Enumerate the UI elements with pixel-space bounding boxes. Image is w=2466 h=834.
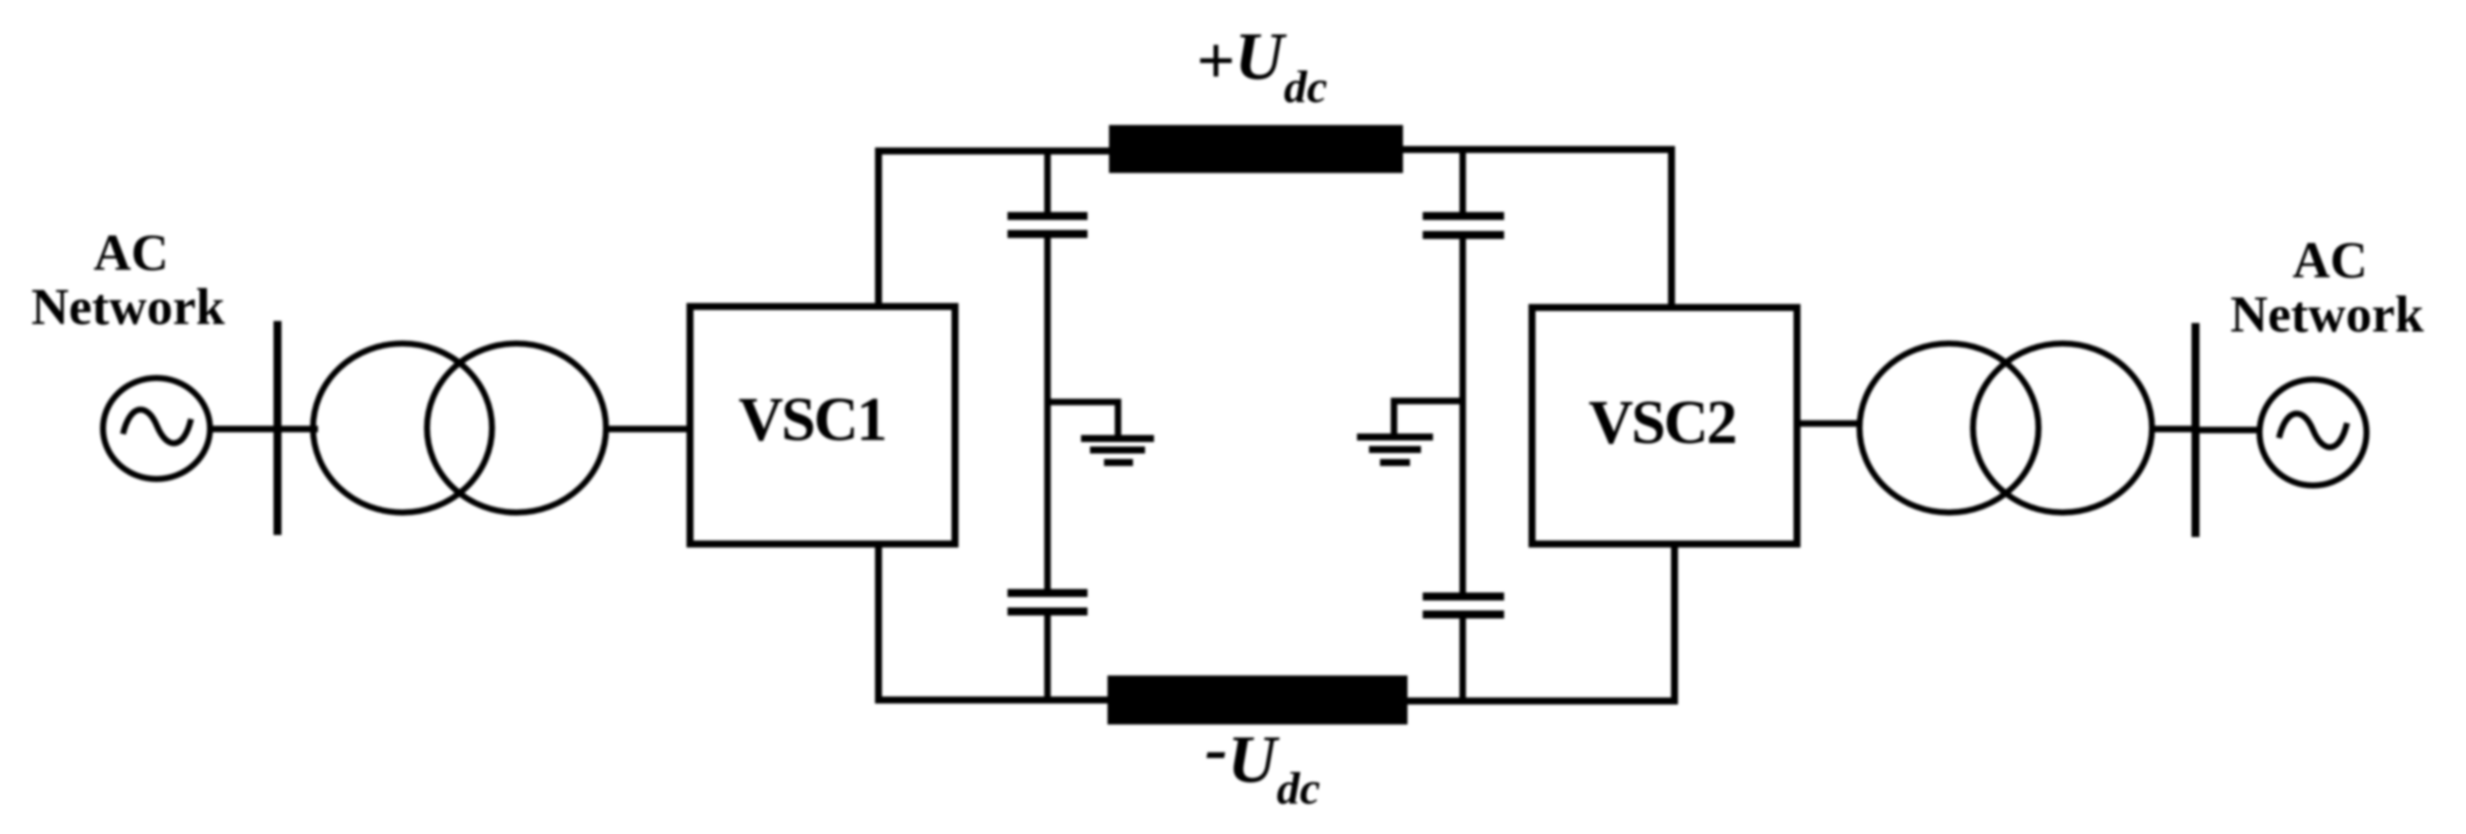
wire VSC2 to transformer T2 — [1795, 420, 1862, 427]
capacitor C4 lead — [1459, 617, 1466, 703]
wire VSC1 bottom to DC- rail — [879, 541, 1113, 700]
wire midpoint branch (right) — [1459, 238, 1466, 594]
capacitor C1 (upper left) lead — [1044, 148, 1051, 213]
svg-text:AC: AC — [2292, 233, 2367, 290]
wire busbar to right AC source — [2195, 427, 2262, 434]
transformer T2 (right) — [1860, 344, 2153, 513]
wire source to left busbar — [208, 426, 278, 433]
wire T2 to right busbar — [2150, 426, 2198, 433]
AC source G2 (right) — [2260, 380, 2367, 486]
capacitor C2 (lower left) plates — [1008, 589, 1088, 597]
svg-text:VSC2: VSC2 — [1588, 389, 1735, 457]
right AC busbar — [2192, 323, 2200, 537]
DC bus +Udc bar — [1109, 125, 1403, 173]
converter VSC2 — [1532, 308, 1797, 545]
ground G-right tap wire — [1394, 401, 1463, 434]
capacitor C4 (lower right) plates — [1423, 593, 1504, 601]
capacitor C3 plates — [1423, 212, 1504, 220]
capacitor C1 plates — [1008, 212, 1088, 220]
svg-text:Network: Network — [31, 279, 225, 336]
transformer T1 (left) — [313, 344, 606, 513]
left AC busbar — [274, 321, 282, 535]
ground G-left symbol — [1081, 439, 1154, 463]
wire DC+ rail to VSC2 top — [1400, 150, 1672, 310]
wire VSC1 top to DC+ rail — [879, 151, 1113, 310]
svg-text:VSC1: VSC1 — [738, 386, 885, 454]
AC source G1 (left) — [103, 378, 210, 479]
svg-text:Network: Network — [2230, 287, 2424, 344]
converter VSC1 — [690, 307, 955, 545]
svg-text:AC: AC — [93, 225, 168, 282]
wire DC- rail to VSC2 bottom — [1400, 543, 1675, 701]
capacitor C2 lead — [1044, 614, 1051, 702]
ground G-left tap wire — [1048, 402, 1119, 437]
wire busbar to transformer T1 — [277, 426, 318, 433]
wire T1 to VSC1 — [604, 426, 692, 433]
DC bus -Udc bar — [1108, 676, 1408, 725]
wire midpoint branch (left) — [1044, 237, 1051, 590]
capacitor C3 (upper right) lead — [1459, 146, 1466, 213]
ground G-right symbol — [1357, 437, 1433, 463]
